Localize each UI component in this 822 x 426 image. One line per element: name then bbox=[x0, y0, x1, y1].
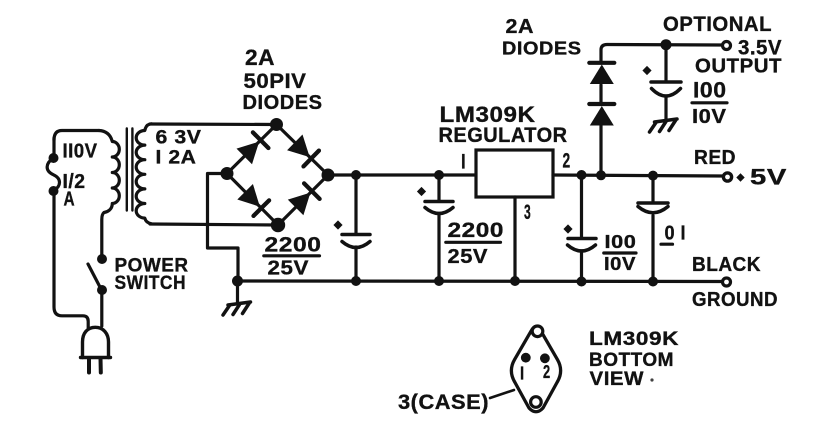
svg-text:DIODES: DIODES bbox=[243, 92, 323, 114]
capacitor C2 2200uF 25V bbox=[437, 175, 440, 201]
node bridge right corner bbox=[322, 169, 335, 182]
bridge diode upper-left (points to + top? no, to top corner) bbox=[237, 142, 260, 165]
bridge diode lower-left bbox=[237, 184, 260, 207]
wire pin3 to ground rail bbox=[513, 197, 516, 281]
diode D5 (lower of 2A diodes) bbox=[590, 106, 614, 126]
regulator U1 LM309K bbox=[476, 150, 553, 197]
diode D6 (upper of 2A diodes) bbox=[590, 65, 614, 85]
svg-text:VIEW: VIEW bbox=[590, 369, 645, 390]
fuse F1 1/2A squiggle bbox=[47, 158, 59, 191]
svg-text:25V: 25V bbox=[448, 245, 489, 268]
node filter cap C2 top bbox=[434, 170, 444, 180]
svg-text:50PIV: 50PIV bbox=[244, 70, 307, 93]
wire secondary bottom to bridge bbox=[150, 224, 278, 225]
wire between diodes bbox=[599, 85, 602, 103]
svg-text:2: 2 bbox=[543, 362, 551, 382]
svg-text:2: 2 bbox=[563, 150, 571, 173]
wire switch to plug bbox=[100, 290, 103, 326]
LM309K package bottom view outline (TO-3) bbox=[511, 326, 560, 411]
svg-text:6 3V: 6 3V bbox=[156, 128, 202, 149]
svg-text:25V: 25V bbox=[268, 257, 310, 280]
wire diode column top to optional output bbox=[601, 45, 722, 64]
svg-text:2A: 2A bbox=[506, 16, 535, 38]
transformer T1 secondary winding bbox=[136, 124, 151, 224]
wire diode column from +5 rail bbox=[599, 125, 602, 175]
svg-text:SWITCH: SWITCH bbox=[115, 272, 187, 294]
svg-text:OPTIONAL: OPTIONAL bbox=[663, 13, 772, 36]
output terminal +5V bbox=[723, 173, 731, 181]
svg-text:II0V: II0V bbox=[63, 140, 98, 163]
svg-text:5V: 5V bbox=[750, 165, 787, 190]
svg-text:I0V: I0V bbox=[604, 254, 636, 274]
node ground rail left bbox=[232, 276, 243, 287]
node optional output cap top bbox=[661, 39, 672, 50]
node filter cap C1 top bbox=[351, 170, 361, 180]
AC plug prong right bbox=[99, 358, 103, 373]
package mounting hole top bbox=[532, 326, 543, 337]
capacitor C5 100uF 10V optional bbox=[664, 45, 667, 82]
node bridge left corner bbox=[221, 167, 234, 180]
node bridge bottom corner bbox=[271, 218, 285, 232]
node fuse top bbox=[49, 153, 59, 163]
svg-text:LM309K: LM309K bbox=[589, 329, 679, 350]
capacitor C4 .01 bbox=[651, 176, 654, 203]
power switch S1 bbox=[97, 254, 107, 264]
ground terminal bbox=[723, 278, 731, 286]
svg-text:A: A bbox=[64, 189, 76, 211]
capacitor C1 2200uF 25V bbox=[354, 175, 357, 234]
wire 110V loop left side lower bbox=[54, 191, 88, 328]
svg-text:2200: 2200 bbox=[448, 219, 505, 242]
svg-text:3: 3 bbox=[524, 201, 531, 224]
bridge rectifier diamond bbox=[227, 125, 328, 226]
svg-text:GROUND: GROUND bbox=[692, 289, 778, 311]
svg-text:REGULATOR: REGULATOR bbox=[439, 124, 568, 147]
AC plug P1 bbox=[83, 327, 109, 357]
package pin 1 bbox=[521, 353, 531, 363]
package pin 2 bbox=[540, 353, 550, 363]
wire positive rail bridge to regulator bbox=[328, 173, 476, 176]
svg-text:RED: RED bbox=[694, 147, 736, 169]
svg-text:0 I: 0 I bbox=[665, 222, 687, 245]
node bridge top corner bbox=[270, 118, 283, 131]
capacitor C3 100uF 10V bbox=[580, 175, 583, 238]
wire 110V loop left side upper bbox=[52, 138, 55, 158]
svg-text:BLACK: BLACK bbox=[692, 254, 761, 276]
AC plug prong left bbox=[87, 358, 91, 373]
ground symbol main bbox=[236, 281, 239, 302]
svg-text:I 2A: I 2A bbox=[156, 148, 197, 169]
bridge diode lower-right bbox=[288, 193, 311, 216]
ground rail (bottom) bbox=[238, 279, 724, 283]
svg-text:OUTPUT: OUTPUT bbox=[695, 56, 782, 78]
wire secondary top to bridge bbox=[150, 122, 277, 126]
svg-text:I0V: I0V bbox=[692, 105, 727, 128]
wire bridge left corner to ground rail (stepped) bbox=[208, 174, 239, 281]
transformer T1 primary winding bbox=[99, 131, 119, 256]
scan speck bbox=[650, 378, 653, 381]
transformer T1 core bbox=[126, 129, 128, 211]
svg-text:2A: 2A bbox=[245, 45, 275, 70]
wire 110V loop top edge bbox=[54, 131, 99, 141]
svg-text:BOTTOM: BOTTOM bbox=[589, 350, 674, 371]
bridge diode upper-right bbox=[287, 135, 310, 158]
node fuse bottom bbox=[49, 186, 59, 196]
svg-text:I00: I00 bbox=[693, 78, 727, 103]
svg-text:I: I bbox=[520, 364, 525, 384]
wire pin2 output rail bbox=[553, 175, 723, 176]
svg-text:DIODES: DIODES bbox=[502, 39, 582, 59]
svg-text:2200: 2200 bbox=[265, 234, 322, 257]
svg-text:3(CASE): 3(CASE) bbox=[398, 391, 489, 414]
label +5V bbox=[736, 173, 744, 181]
svg-text:I: I bbox=[461, 151, 466, 174]
package mounting hole bottom bbox=[531, 397, 542, 408]
optional output terminal 3.5V bbox=[723, 42, 731, 50]
ground symbol optional output bbox=[655, 119, 678, 122]
svg-text:I00: I00 bbox=[605, 232, 637, 252]
